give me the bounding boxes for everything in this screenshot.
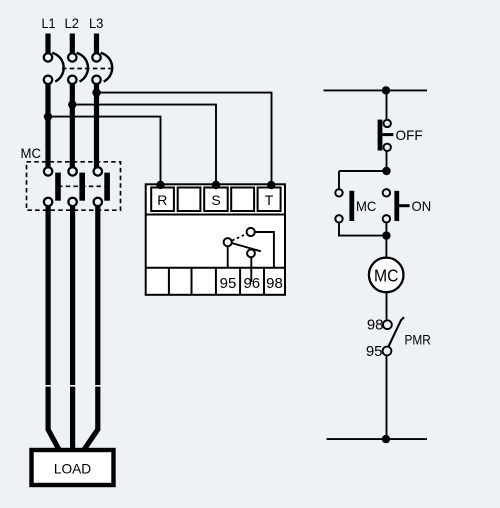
MC main contact pole 1 [44,167,58,206]
relay contact NO terminal circle [247,228,255,236]
PMR terminal 95 circle [383,347,392,356]
relay internal wire common to 95 [227,246,229,267]
svg-text:98: 98 [367,317,384,334]
svg-text:95: 95 [220,275,237,292]
terminal cell T [258,188,281,212]
node branch bottom [382,231,390,239]
node bottom rail [382,435,390,443]
wire 95 to bottom rail [386,356,388,440]
OFF pushbutton (NC) [380,120,393,151]
PMR terminal 98 circle [383,320,392,329]
wire node to coil [385,236,387,258]
svg-text:ON: ON [412,198,432,214]
svg-text:L1: L1 [42,15,56,31]
MC auxiliary contact (NO) [335,189,352,222]
svg-text:T: T [265,192,274,208]
relay contact dashed actuator [232,234,246,241]
svg-text:R: R [157,192,167,208]
svg-text:L3: L3 [89,15,104,31]
svg-text:PMR: PMR [405,332,431,348]
terminal cell S [204,188,228,212]
wire OFF to branch node [386,152,388,172]
MC main contact pole 3 [94,167,107,206]
breaker mechanical linkage dashed line [62,68,111,70]
wire MC aux to bottom branch [339,223,386,236]
relay PMR block outline [146,184,285,294]
wire L1 breaker to contactor [45,85,50,168]
node terminal S [212,181,220,189]
svg-text:MC: MC [21,145,42,161]
terminal cell blank 2 [231,188,254,212]
bottom row cell dividers [169,267,264,295]
svg-text:OFF: OFF [396,127,423,143]
svg-text:95: 95 [366,343,383,360]
circuit breaker pole L3 [92,34,112,85]
MC contactor dashed enclosure [27,162,121,210]
wire pole1 to LOAD [48,207,58,453]
wire pole2 to LOAD [70,207,75,453]
circuit breaker pole L1 [44,34,64,85]
svg-text:L2: L2 [65,15,80,31]
wire top rail to OFF [386,90,388,120]
PMR contact blade [389,317,405,346]
circuit breaker pole L2 [68,34,88,85]
svg-text:98: 98 [266,275,283,292]
wire pole3 to LOAD [85,207,98,453]
ON pushbutton (NO) [383,189,410,222]
MC main contact pole 2 [68,167,82,206]
relay internal wire NO to 98 [256,232,274,267]
wire left leg down to MC aux [338,171,340,189]
relay block upper divider [146,214,285,216]
wire ON to bottom branch node [385,223,387,236]
wire L2 tap to terminal S [72,105,216,185]
node L3 tap [92,88,100,96]
svg-text:LOAD: LOAD [54,460,91,476]
node terminal R [156,181,164,189]
wire L1 tap to terminal R [48,117,161,185]
svg-text:MC: MC [356,198,376,214]
wire L3 breaker to contactor [94,85,99,168]
svg-text:MC: MC [374,265,398,285]
MC coil [369,258,404,293]
LOAD box [32,450,114,485]
MC contact linkage dashed line [58,185,107,187]
relay contact common terminal circle [224,238,232,246]
wire L2 breaker to contactor [70,85,75,168]
terminal cell blank 1 [178,188,201,212]
node terminal T [267,181,275,189]
node top rail [382,86,390,94]
control circuit top rail [324,89,428,91]
wire L3 tap to terminal T [97,93,272,185]
relay internal wire NC to 96 [250,256,252,282]
node L1 tap [44,112,52,120]
relay contact NC terminal circle [247,249,255,257]
control circuit bottom rail [327,438,428,440]
svg-text:S: S [211,192,220,208]
node branch top [382,167,390,175]
relay contact blade [232,243,261,251]
terminal cell R [151,188,174,212]
wire branch top horizontal [339,170,387,172]
relay block lower divider [146,267,285,269]
node L2 tap [68,100,76,108]
wire coil to 98 [386,293,388,322]
